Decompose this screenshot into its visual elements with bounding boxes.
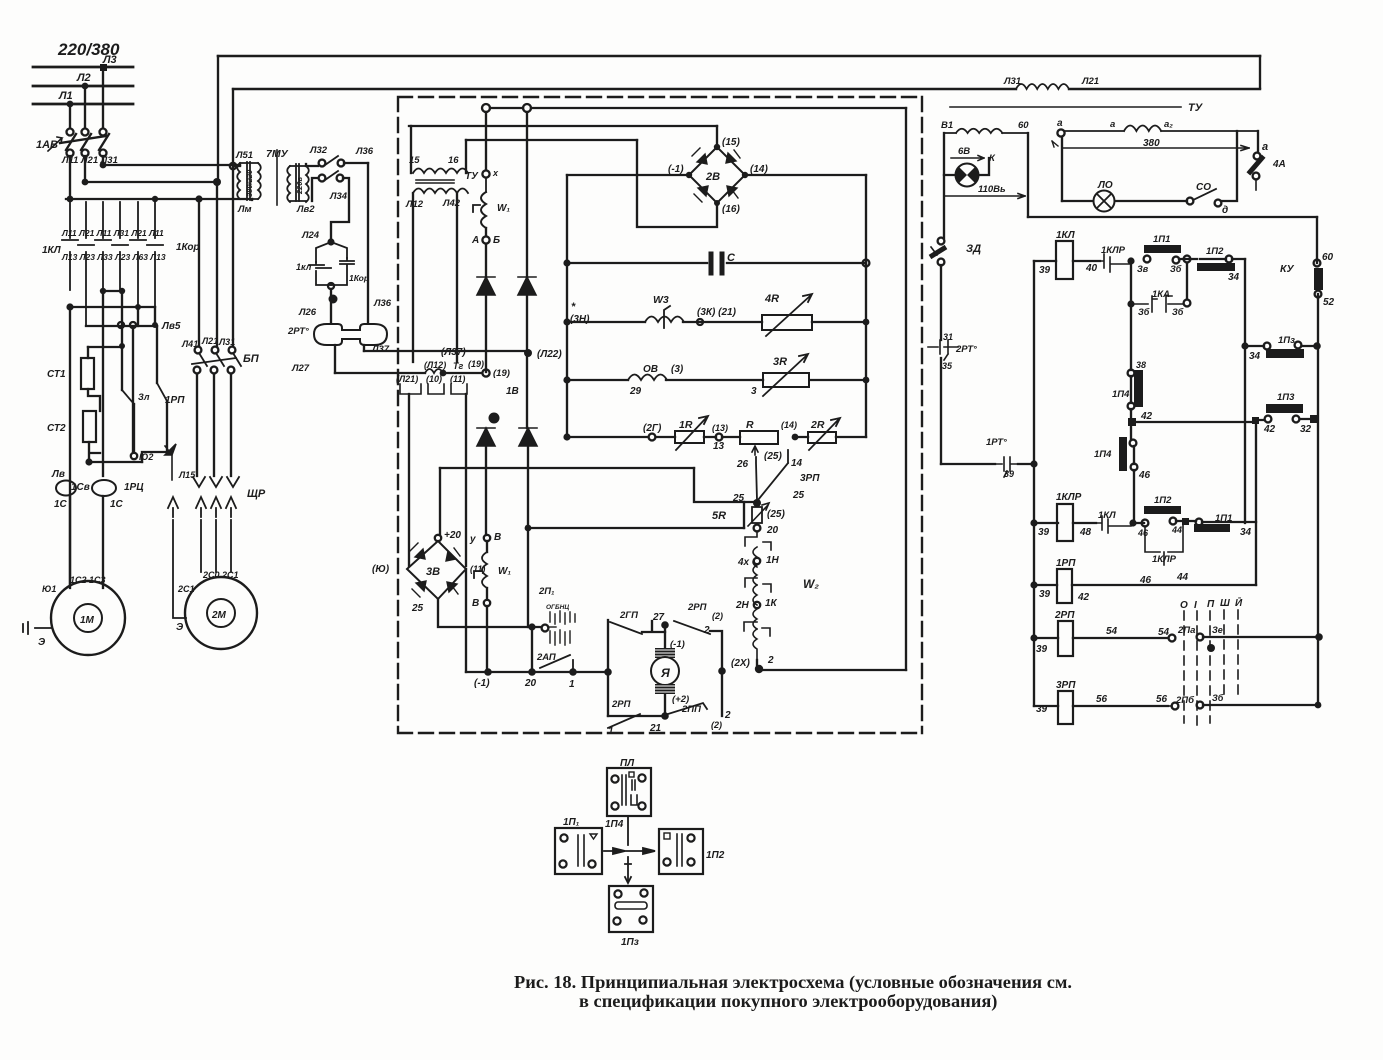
svg-text:(Л12): (Л12) xyxy=(424,360,446,370)
coil seg xyxy=(753,547,757,567)
wire: down to 1KLR row xyxy=(1133,446,1135,523)
svg-text:25: 25 xyxy=(411,603,424,614)
motor 2M inner circle xyxy=(207,599,235,627)
bridge 3B (diamond) xyxy=(407,541,466,599)
switch 3D (knife) xyxy=(938,238,945,245)
right rail A x1245 xyxy=(1244,259,1246,523)
svg-text:1Кор: 1Кор xyxy=(176,242,200,253)
wire: col x122 down to 1RP blade xyxy=(121,346,123,390)
svg-text:1П₁: 1П₁ xyxy=(563,817,580,828)
circuit breaker 1AB poles (contacts) xyxy=(60,129,109,157)
wire: col x133 down xyxy=(132,328,134,452)
svg-text:х: х xyxy=(492,168,499,178)
armature Ya circle xyxy=(651,657,679,685)
svg-text:44: 44 xyxy=(1176,572,1189,583)
svg-text:(11): (11) xyxy=(450,374,465,384)
svg-text:35: 35 xyxy=(942,361,953,371)
junction dots capacitor row xyxy=(563,259,570,266)
terminal circle on row1 at column L51 xyxy=(230,163,236,169)
110V line with arrow xyxy=(944,194,1025,199)
svg-text:1П3: 1П3 xyxy=(1277,392,1295,403)
wiper triangle to node 25 xyxy=(756,450,788,500)
svg-text:39: 39 xyxy=(1036,704,1048,715)
wire: y468 link line xyxy=(440,467,694,469)
heater coil row a1-a2 xyxy=(1065,126,1258,132)
svg-text:42: 42 xyxy=(1077,592,1090,603)
svg-text:1К: 1К xyxy=(765,598,778,609)
contact 2PP lower right xyxy=(668,703,707,714)
wire: drops from buses to breaker xyxy=(70,67,103,128)
svg-text:25: 25 xyxy=(792,490,805,501)
wire: lower contact loop to L34 node xyxy=(312,178,349,242)
wire: mesh row at y291 xyxy=(103,290,122,292)
junction dot 1KA row xyxy=(1127,300,1134,307)
svg-text:39: 39 xyxy=(1039,589,1051,600)
plate 1P2 (right) xyxy=(659,829,703,874)
terminal circle 1C2 xyxy=(131,453,137,459)
motor 1M outer circle xyxy=(51,581,125,655)
wire: down to node (-1) xyxy=(486,606,488,672)
svg-text:56: 56 xyxy=(1096,694,1108,705)
svg-text:Л36: Л36 xyxy=(355,146,374,157)
contact 1KA pair xyxy=(1131,296,1183,312)
wire: right inner rail x906 xyxy=(905,108,907,670)
link rail x1256 xyxy=(1255,420,1257,585)
svg-text:3РП: 3РП xyxy=(1056,680,1076,691)
svg-text:а: а xyxy=(1057,118,1063,129)
wire: columns from bus rows down to plug BP xyxy=(199,166,233,346)
svg-text:1РТ°: 1РТ° xyxy=(986,437,1007,448)
filled dot on selector line II xyxy=(1207,644,1215,652)
svg-text:(3Н): (3Н) xyxy=(570,314,590,325)
junction right rail at (2X) row xyxy=(718,667,726,675)
wire: bottom row y672 xyxy=(466,671,608,673)
svg-text:Л12: Л12 xyxy=(405,199,424,210)
svg-text:(Л21): (Л21) xyxy=(396,374,418,384)
wire down to diode xyxy=(485,244,487,276)
wire: x466 down from 3B right corner xyxy=(465,569,467,672)
wire: feeder riser x=218 xyxy=(217,56,219,181)
svg-text:ОВ: ОВ xyxy=(643,364,658,375)
svg-text:А: А xyxy=(471,235,479,246)
svg-text:Л11 Л21 Л11 Л31 Л21 Л11: Л11 Л21 Л11 Л31 Л21 Л11 xyxy=(61,228,164,238)
svg-text:34: 34 xyxy=(1249,351,1261,362)
wire: secondary right drop xyxy=(456,193,458,362)
diode 1 (upper left) xyxy=(477,277,495,295)
svg-text:СО: СО xyxy=(1196,182,1211,193)
svg-text:Л21: Л21 xyxy=(201,336,218,346)
wire: capacitor row y263 xyxy=(567,262,866,264)
svg-text:(10): (10) xyxy=(426,374,442,384)
rheostat 5R (vertical) xyxy=(752,507,762,523)
wire: bone outputs xyxy=(335,345,364,373)
svg-text:Зб: Зб xyxy=(1170,264,1182,274)
svg-text:W₂: W₂ xyxy=(803,577,819,591)
wire: right rail x527 xyxy=(526,112,528,428)
cross arrows between plates xyxy=(604,816,655,882)
rheostat 4R xyxy=(762,315,812,330)
svg-text:Лв: Лв xyxy=(51,469,65,480)
wire: bus row 2 xyxy=(85,181,217,183)
svg-text:29: 29 xyxy=(629,386,642,397)
svg-text:1: 1 xyxy=(569,679,575,690)
svg-text:1С: 1С xyxy=(54,499,68,510)
junction dots row2 xyxy=(82,179,89,186)
svg-text:1КА: 1КА xyxy=(1152,289,1170,300)
plate 1P1 (left) xyxy=(555,828,602,874)
svg-text:В: В xyxy=(494,532,501,543)
wire: second long feeder line xyxy=(233,88,1260,90)
wire: OB row y380 xyxy=(567,379,866,381)
svg-text:40: 40 xyxy=(1085,263,1098,274)
wire: inner loop to bridge 2B bottom xyxy=(637,140,717,227)
svg-text:4А: 4А xyxy=(1272,159,1286,170)
wire: mesh row at y326 xyxy=(86,325,157,327)
svg-text:а₂: а₂ xyxy=(1164,119,1173,130)
junction dots row3 xyxy=(67,196,74,203)
svg-text:Л32: Л32 xyxy=(309,145,328,156)
selector dashed columns xyxy=(1184,610,1238,728)
wire: top right corner to right rail xyxy=(710,631,722,716)
svg-text:в спецификации покупного элект: в спецификации покупного электрооборудов… xyxy=(579,991,997,1012)
transformer (15/16 - L12/L42) primary xyxy=(413,169,468,174)
wire: inner right rail x866 xyxy=(865,175,867,437)
wire: primary right riser xyxy=(465,140,467,173)
wire: taps down to bridge 3B xyxy=(409,394,466,566)
signal lamp LO (circle with X) xyxy=(1094,191,1115,212)
wire: L37 into dashed box xyxy=(364,350,528,352)
junction at y528 on x528 xyxy=(525,525,532,532)
svg-text:34: 34 xyxy=(1240,527,1252,538)
plate 1P3 (bottom) xyxy=(609,886,653,932)
svg-text:1R: 1R xyxy=(679,419,693,431)
svg-text:1кл: 1кл xyxy=(296,262,312,272)
wire: secondary left drop xyxy=(412,193,414,362)
svg-text:(2Х): (2Х) xyxy=(731,658,751,669)
svg-text:Б: Б xyxy=(493,235,500,246)
down arrowheads (socket side) xyxy=(193,477,239,487)
wire: line y126 xyxy=(409,125,717,127)
svg-text:1П2: 1П2 xyxy=(1206,246,1224,257)
svg-text:20: 20 xyxy=(766,525,779,536)
transformer 7MU (220) xyxy=(287,164,309,202)
Tg lower winding brackets xyxy=(400,384,467,394)
svg-text:2R: 2R xyxy=(810,419,825,431)
wire: rail L36 down xyxy=(367,163,369,323)
terminal circle to 2P1 xyxy=(542,625,549,632)
svg-text:R: R xyxy=(746,419,754,431)
3B diode arms xyxy=(410,543,460,597)
2B corner dots xyxy=(714,144,720,150)
limit switch 1P4 lower (vertical) xyxy=(1130,440,1137,447)
svg-text:Лв2: Лв2 xyxy=(296,204,315,215)
wire: x532 from bottom wire down xyxy=(531,627,533,672)
junction on relay rail xyxy=(1030,460,1037,467)
diode 2 (upper right) xyxy=(518,277,536,295)
svg-text:2РП: 2РП xyxy=(1054,610,1075,621)
svg-text:Л37: Л37 xyxy=(371,344,390,355)
choke L31-L21 on feeder 2 xyxy=(1016,84,1069,89)
svg-text:+20: +20 xyxy=(444,530,461,541)
terminal A-B xyxy=(482,236,489,243)
wire: top line y108 to right rail xyxy=(490,107,906,109)
svg-text:1С: 1С xyxy=(110,499,124,510)
junction node xyxy=(1127,257,1134,264)
svg-text:ЗД: ЗД xyxy=(966,243,981,255)
svg-text:I: I xyxy=(1194,600,1197,611)
svg-text:220в: 220в xyxy=(295,176,304,195)
armature cell: left rail xyxy=(607,620,609,716)
wire: col x155-157 down xyxy=(156,326,158,383)
motor 1M inner circle xyxy=(74,604,102,632)
2B diode arms xyxy=(692,148,740,202)
3B corner terminal + labels xyxy=(435,535,441,541)
R wiper arrow xyxy=(752,446,758,455)
wire: L51 to bus rows xyxy=(233,166,252,200)
svg-text:Лм: Лм xyxy=(237,204,252,215)
svg-text:Л21: Л21 xyxy=(1081,76,1099,87)
transformer core xyxy=(416,180,454,183)
small circle node under contacts xyxy=(328,283,334,289)
wire: phase bus L1 xyxy=(33,103,133,106)
wire: node 27 down to brush xyxy=(664,625,666,648)
junction dots far rail rows xyxy=(1315,633,1323,641)
junction diamond y346 xyxy=(119,343,125,349)
svg-text:ОГБНЦ: ОГБНЦ xyxy=(546,604,569,611)
svg-text:(19): (19) xyxy=(468,359,484,369)
svg-text:Л2: Л2 xyxy=(76,72,91,84)
relay 1RP coil xyxy=(1034,584,1256,586)
contact 2RP upper right xyxy=(674,621,710,634)
svg-text:В1: В1 xyxy=(941,120,953,131)
svg-text:1П4: 1П4 xyxy=(1094,449,1112,460)
junction dot L24 xyxy=(327,238,334,245)
rheostat 3R xyxy=(763,373,809,387)
svg-text:1: 1 xyxy=(608,726,614,737)
separator line for 7MU xyxy=(276,150,278,205)
wire: columns from plug BP down to arrows xyxy=(197,374,231,476)
junction dots bottom wire xyxy=(528,623,535,630)
svg-text:Я: Я xyxy=(660,666,670,680)
wire: from upper switch to rail L36 xyxy=(344,162,368,164)
push button KU xyxy=(1314,260,1321,267)
svg-text:П: П xyxy=(1207,599,1215,610)
svg-text:(14): (14) xyxy=(781,420,797,430)
svg-text:Л26: Л26 xyxy=(298,307,317,318)
svg-text:1КЛ: 1КЛ xyxy=(1056,230,1076,241)
svg-text:(2): (2) xyxy=(711,720,722,730)
relay 3RP coil xyxy=(1034,705,1168,707)
svg-text:1В: 1В xyxy=(506,386,519,397)
wire down to thermal 2RT xyxy=(330,289,332,323)
wire: phase bus L2 xyxy=(33,85,133,88)
svg-text:Э: Э xyxy=(176,622,184,633)
svg-text:39: 39 xyxy=(1036,644,1048,655)
wire: lamp LO row xyxy=(1062,200,1187,202)
motor 2M outer circle xyxy=(185,577,257,649)
svg-text:3R: 3R xyxy=(773,356,787,368)
svg-text:26: 26 xyxy=(736,459,749,470)
winding W1 lower xyxy=(474,552,487,588)
junction dots ladder rail xyxy=(1030,519,1037,526)
armature upper brush xyxy=(655,648,675,658)
limit switch 1P3 upper row y346 xyxy=(1245,345,1317,347)
wire: right end vertical joining the two feeders xyxy=(1259,56,1261,88)
wire: W3 row y322 xyxy=(567,321,866,323)
junction dots y672 xyxy=(528,668,536,676)
junction dots OB row xyxy=(563,376,570,383)
wire: breaker outputs down xyxy=(70,156,103,199)
svg-text:C: C xyxy=(727,252,736,264)
limit switch 1P3 lower row y420 xyxy=(1259,419,1310,420)
svg-text:56: 56 xyxy=(1156,694,1168,705)
svg-text:2АП: 2АП xyxy=(536,652,556,663)
relay 1KL coil xyxy=(1034,260,1100,262)
junction node row y523 xyxy=(1129,519,1136,526)
svg-text:1АВ: 1АВ xyxy=(36,139,58,151)
svg-text:2: 2 xyxy=(767,655,774,666)
svg-text:ТУ: ТУ xyxy=(1188,102,1204,114)
svg-text:2В: 2В xyxy=(705,171,720,183)
wire: row y464 to relay rail xyxy=(941,463,1034,465)
wire: CT2 bottom jog to node xyxy=(89,442,100,462)
junction on bus L1 xyxy=(67,101,74,108)
svg-text:(2): (2) xyxy=(712,611,723,621)
svg-text:W₁: W₁ xyxy=(497,203,510,214)
svg-text:1КЛР: 1КЛР xyxy=(1056,492,1082,503)
svg-text:(16): (16) xyxy=(722,204,740,215)
chassis arrow above col xyxy=(165,444,176,480)
wire: row 42 to 1P3 lower xyxy=(1132,421,1255,423)
contact 2AP blade xyxy=(540,655,573,668)
svg-text:110Вь: 110Вь xyxy=(978,184,1006,195)
svg-text:1РП: 1РП xyxy=(1056,558,1076,569)
svg-text:Э: Э xyxy=(38,637,46,648)
potentiometer R xyxy=(740,431,778,444)
limit switch 1P1 (top row) xyxy=(1144,256,1151,263)
svg-text:1П4: 1П4 xyxy=(605,819,624,830)
relay ladder left rail xyxy=(1033,261,1035,706)
winding W1 upper xyxy=(481,192,486,228)
wire: from top circle down to TU xyxy=(485,112,487,170)
svg-text:а: а xyxy=(1262,141,1268,153)
wire: rail down to y464 xyxy=(940,358,942,464)
svg-text:Лв5: Лв5 xyxy=(161,321,181,332)
node (2X) xyxy=(756,660,758,669)
rheostat 2R xyxy=(808,432,836,443)
svg-text:Л41: Л41 xyxy=(181,339,198,349)
wire: L27 row into box (Tg primary) xyxy=(335,372,425,374)
svg-text:*: * xyxy=(571,301,576,313)
svg-text:Л31: Л31 xyxy=(218,337,235,347)
svg-text:В: В xyxy=(472,598,479,609)
svg-text:5R: 5R xyxy=(712,510,726,522)
svg-text:Рис. 18. Принципиальная электр: Рис. 18. Принципиальная электросхема (ус… xyxy=(514,972,1072,993)
contact 1RP right blade xyxy=(157,383,167,401)
svg-text:1Кор: 1Кор xyxy=(349,273,369,283)
current transformer bulge on col x70 xyxy=(56,481,76,496)
far right rail xyxy=(1317,217,1318,706)
svg-text:(25): (25) xyxy=(767,509,785,520)
transformer secondary xyxy=(413,189,468,194)
wire: resistor row y437 xyxy=(567,436,866,438)
svg-text:(13): (13) xyxy=(712,423,728,433)
pin up-arrows to motor 2M xyxy=(168,497,236,618)
svg-text:13: 13 xyxy=(713,441,725,452)
svg-text:7МУ: 7МУ xyxy=(266,148,289,160)
svg-text:1КЛ: 1КЛ xyxy=(42,245,62,256)
contactor 1KL main contact bank (6 poles) xyxy=(62,202,163,326)
svg-text:39: 39 xyxy=(1039,265,1051,276)
terminal circle (19) xyxy=(482,369,489,376)
rectifier bridge 2B (diamond) xyxy=(689,147,745,203)
wire: line y140 xyxy=(466,139,637,141)
svg-text:1КЛ: 1КЛ xyxy=(1098,510,1116,521)
svg-text:39: 39 xyxy=(1038,527,1050,538)
svg-text:(-1): (-1) xyxy=(668,164,684,175)
wire: riser from y468 to 3B top xyxy=(439,468,441,535)
limit switch 1P2 (top row) xyxy=(1197,263,1235,271)
linkage 1KLR bracket below xyxy=(1145,525,1183,565)
wire: y528 link line xyxy=(528,527,744,529)
svg-text:6В: 6В xyxy=(958,146,970,157)
svg-text:СТ1: СТ1 xyxy=(47,369,66,380)
svg-text:54: 54 xyxy=(1106,626,1118,637)
contact circles on row y326 xyxy=(118,322,124,328)
node 42 xyxy=(1130,376,1132,440)
wire: long top feeder line (220/380 to right side) xyxy=(218,55,1260,58)
svg-text:2РП: 2РП xyxy=(687,602,707,613)
wire: rail x944 down xyxy=(943,133,945,238)
wire: 2B left corner to x567 rail xyxy=(567,174,689,176)
svg-text:3В: 3В xyxy=(426,566,440,578)
signal lamp K (filled quadrants) xyxy=(956,164,979,187)
svg-text:44: 44 xyxy=(1171,525,1182,535)
rheostat 1R xyxy=(675,431,704,443)
wire: CT1 top stub xyxy=(87,347,89,358)
switch CO xyxy=(1187,198,1194,205)
coil seg 2 with bracket xyxy=(745,565,771,592)
svg-text:2ПП: 2ПП xyxy=(681,704,701,715)
svg-text:2ГП: 2ГП xyxy=(619,610,638,621)
contact block 1KL / 1Kor (parallel pair) xyxy=(309,242,354,285)
current transformer bulge on col x103 xyxy=(92,480,116,496)
svg-text:1Пз: 1Пз xyxy=(621,937,639,948)
wire: to node 27 xyxy=(642,621,665,632)
wire: riser to bridge 2B top xyxy=(716,126,718,144)
node 21 xyxy=(661,712,669,720)
wire: 3B bottom loop xyxy=(438,599,541,627)
svg-text:Л31: Л31 xyxy=(1003,76,1021,87)
svg-text:(14): (14) xyxy=(750,164,768,175)
svg-text:(25): (25) xyxy=(764,451,782,462)
svg-text:Зб: Зб xyxy=(1138,307,1150,317)
terminal circles on top line xyxy=(482,104,490,112)
svg-text:3РП: 3РП xyxy=(800,473,820,484)
svg-text:48: 48 xyxy=(1079,527,1092,538)
svg-text:СТ2: СТ2 xyxy=(47,423,66,434)
svg-text:Л27: Л27 xyxy=(291,363,310,374)
svg-text:1П2: 1П2 xyxy=(706,850,725,861)
contact 2RP lower left xyxy=(608,714,640,728)
svg-text:Л13 Л23 Л33 Л23 Л63 Л13: Л13 Л23 Л33 Л23 Л63 Л13 xyxy=(61,252,166,262)
wire + circle to 1P2 xyxy=(1179,258,1197,260)
relay 2RP coil xyxy=(1034,637,1168,639)
svg-text:ЛО: ЛО xyxy=(1097,180,1113,191)
svg-text:Ш: Ш xyxy=(1220,598,1230,609)
svg-text:1Н: 1Н xyxy=(766,555,780,566)
wire: rail x1028 down xyxy=(1027,133,1029,217)
